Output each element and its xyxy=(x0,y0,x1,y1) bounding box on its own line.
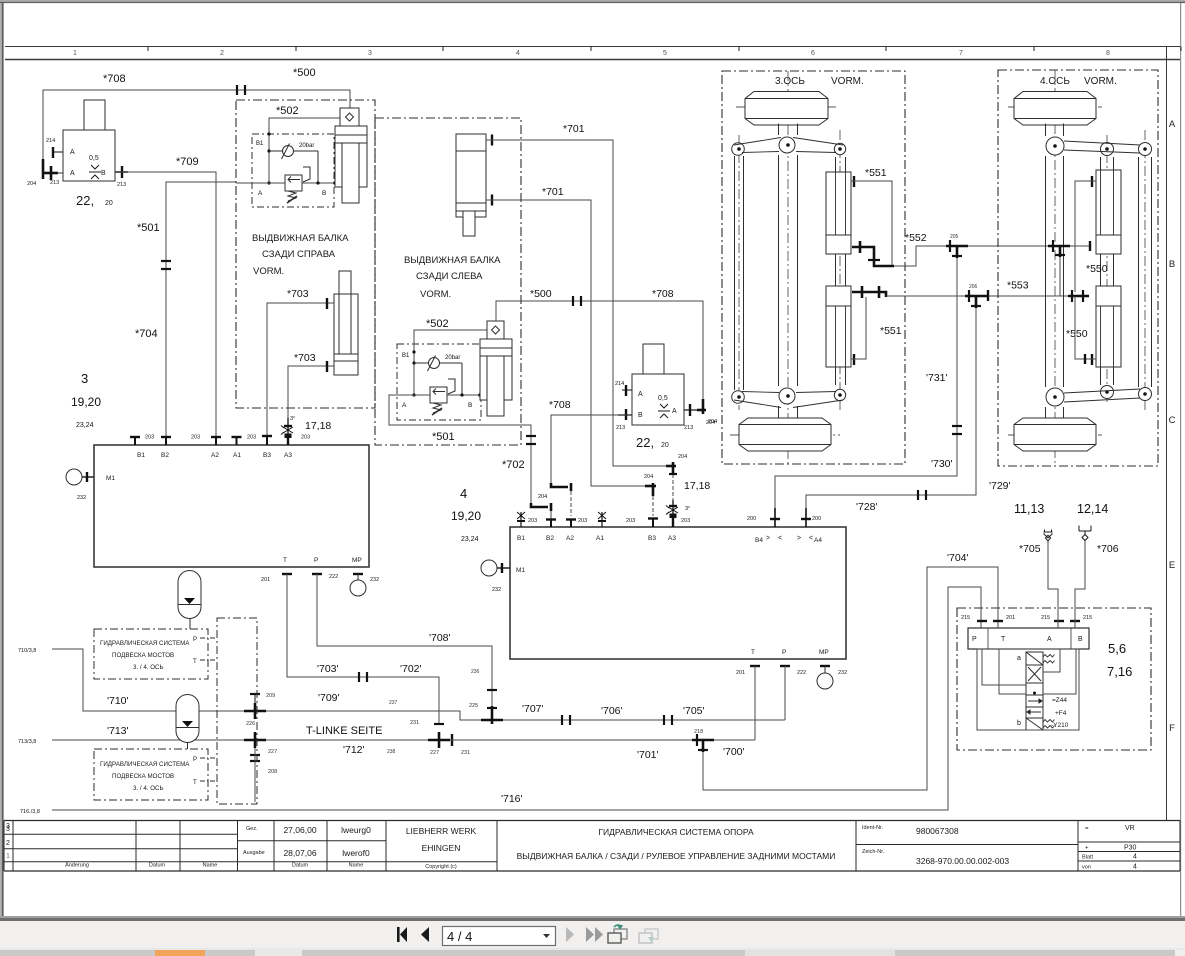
svg-text:232: 232 xyxy=(370,577,379,583)
valve U22-2 labels xyxy=(615,381,715,480)
svg-text:B1: B1 xyxy=(402,353,410,359)
svg-text:P: P xyxy=(782,649,786,656)
svg-text:'712': '712' xyxy=(343,744,365,756)
svg-text:28,07,06: 28,07,06 xyxy=(283,848,316,858)
svg-text:4: 4 xyxy=(516,50,520,57)
svg-text:201: 201 xyxy=(261,577,270,583)
svg-text:4: 4 xyxy=(460,486,467,501)
axle3 upper cyl top port xyxy=(853,176,855,187)
svg-text:716./3,8: 716./3,8 xyxy=(20,809,40,815)
svg-text:ГИДРАВЛИЧЕСКАЯ СИСТЕМА ОПОРА: ГИДРАВЛИЧЕСКАЯ СИСТЕМА ОПОРА xyxy=(598,827,754,837)
port A riser to coupling xyxy=(1048,541,1058,628)
ruler band xyxy=(5,46,1180,48)
manifold port labels xyxy=(972,636,1083,643)
svg-text:B: B xyxy=(468,402,472,409)
svg-text:A1: A1 xyxy=(233,452,241,459)
svg-text:Datum: Datum xyxy=(149,863,166,869)
svg-text:22,: 22, xyxy=(636,435,654,450)
lower cyl port link xyxy=(1075,296,1096,364)
svg-text:T: T xyxy=(283,557,287,564)
svg-text:P: P xyxy=(972,636,977,643)
axle3 junction cluster xyxy=(852,241,894,298)
svg-text:A: A xyxy=(672,408,677,415)
junction 218 xyxy=(692,734,714,752)
right inner frame xyxy=(1166,47,1168,821)
svg-text:23,24: 23,24 xyxy=(461,536,479,543)
axle4 cylinder lower *550 xyxy=(1096,286,1121,367)
bottom scrollbar strips xyxy=(0,950,1185,956)
icon: previous view xyxy=(608,925,627,943)
connector on *702 riser xyxy=(526,436,536,444)
port 214 tick U22-2 xyxy=(622,385,632,396)
wire *703 upper to B3 xyxy=(267,303,334,445)
svg-text:203: 203 xyxy=(301,435,310,441)
svg-text:MP: MP xyxy=(819,649,829,656)
text beam right xyxy=(252,233,349,277)
svg-text:A4: A4 xyxy=(814,537,822,544)
svg-text:+F4: +F4 xyxy=(1055,710,1067,717)
svg-text:*708: *708 xyxy=(549,399,571,411)
svg-text:*502: *502 xyxy=(426,318,449,330)
svg-text:*703: *703 xyxy=(294,352,316,364)
svg-text:'706': '706' xyxy=(601,705,623,717)
svg-text:*502: *502 xyxy=(276,105,299,117)
axle3 bottom linkage xyxy=(734,392,843,408)
svg-text:VORM.: VORM. xyxy=(253,266,284,277)
svg-text:*551: *551 xyxy=(865,167,887,179)
svg-text:236: 236 xyxy=(471,669,480,675)
axle3 cylinder upper *551 xyxy=(826,172,851,254)
svg-text:M1: M1 xyxy=(516,567,525,574)
svg-text:17,18: 17,18 xyxy=(305,420,331,432)
svg-text:LIEBHERR WERK: LIEBHERR WERK xyxy=(406,826,477,836)
svg-text:5: 5 xyxy=(663,50,667,57)
svg-text:'710': '710' xyxy=(107,695,129,707)
svg-text:=: = xyxy=(1085,826,1089,832)
junction *553 axle4 xyxy=(1068,290,1089,302)
wire 700/704 from 218 xyxy=(703,567,998,790)
svg-text:T: T xyxy=(193,779,197,786)
cylinder Z2 (bottom, rod up) xyxy=(334,271,358,375)
wire B1 branch xyxy=(269,118,342,183)
svg-text:T: T xyxy=(193,658,197,665)
svg-text:A3: A3 xyxy=(668,535,676,542)
junction 205 xyxy=(946,240,968,258)
svg-text:ГИДРАВЛИЧЕСКАЯ СИСТЕМА: ГИДРАВЛИЧЕСКАЯ СИСТЕМА xyxy=(100,640,190,647)
svg-text:P: P xyxy=(193,636,197,643)
svg-text:-Y210: -Y210 xyxy=(1051,722,1069,729)
svg-text:*702: *702 xyxy=(502,459,525,471)
svg-text:'731': '731' xyxy=(926,372,948,384)
svg-text:A3: A3 xyxy=(284,452,292,459)
cylinder Z1 top mount xyxy=(340,108,359,126)
svg-text:204: 204 xyxy=(708,419,717,425)
valve internal wiring frame xyxy=(977,649,1079,730)
axle4 dash-dot box xyxy=(998,70,1158,466)
manifold tick labels xyxy=(961,615,1092,621)
axle4 centerlines xyxy=(1008,70,1145,466)
svg-text:'701': '701' xyxy=(637,749,659,761)
wire *551 upper xyxy=(851,181,892,266)
port 204 elbow to *708 riser xyxy=(42,159,58,180)
labels near bottom ports block1 xyxy=(261,574,379,583)
svg-text:226: 226 xyxy=(246,721,255,727)
port labels block1 xyxy=(106,452,362,564)
box 5,6 dash-dot xyxy=(957,608,1151,750)
svg-text:227: 227 xyxy=(430,750,439,756)
title block frame xyxy=(4,821,1180,872)
axle3 bottom tire xyxy=(739,418,831,451)
svg-text:1: 1 xyxy=(73,50,77,57)
svg-text:17,18: 17,18 xyxy=(684,480,710,492)
svg-text:'729': '729' xyxy=(989,480,1011,492)
svg-text:205: 205 xyxy=(950,234,959,240)
axle4 title xyxy=(1040,76,1117,87)
svg-text:201: 201 xyxy=(1006,615,1015,621)
svg-text:3: 3 xyxy=(6,826,10,833)
svg-text:8: 8 xyxy=(1106,50,1110,57)
bottom port ticks block2 xyxy=(750,665,830,667)
riser P2 xyxy=(784,666,786,720)
svg-text:A: A xyxy=(258,190,263,197)
svg-text:*708: *708 xyxy=(103,73,126,85)
svg-text:222: 222 xyxy=(329,574,338,580)
svg-text:A: A xyxy=(1047,636,1052,643)
check valve 20bar 2 xyxy=(414,356,462,396)
svg-text:'716': '716' xyxy=(501,793,523,805)
svg-text:20: 20 xyxy=(661,442,669,449)
toolbar icons xyxy=(390,921,670,948)
svg-text:*704: *704 xyxy=(135,328,158,340)
svg-text:VR: VR xyxy=(1125,825,1135,832)
svg-text:=Z44: =Z44 xyxy=(1052,697,1067,704)
labels A B box2 xyxy=(402,402,472,409)
svg-text:>: > xyxy=(797,535,801,542)
svg-text:203: 203 xyxy=(247,435,256,441)
svg-text:5,6: 5,6 xyxy=(1108,641,1126,656)
svg-text:'704': '704' xyxy=(947,552,969,564)
svg-text:*709: *709 xyxy=(176,156,199,168)
axle3 dash-dot box xyxy=(722,71,905,464)
svg-text:<: < xyxy=(809,535,813,542)
svg-text:19,20: 19,20 xyxy=(451,509,481,523)
tick 236 xyxy=(487,689,497,691)
axle4 bottom stem xyxy=(1046,407,1064,418)
ident divider xyxy=(856,844,1078,846)
wire *701 lower xyxy=(486,200,647,486)
check valve 20bar xyxy=(269,144,318,184)
right mini table rows xyxy=(1078,841,1180,843)
crossing tick on *553 at box edge xyxy=(987,290,989,301)
junction 206 xyxy=(965,290,987,308)
svg-text:A: A xyxy=(70,170,75,177)
throttle symbol in U22-1 xyxy=(89,165,101,179)
port B tick of U22-1 xyxy=(121,166,123,178)
svg-text:ПОДВЕСКА МОСТОВ: ПОДВЕСКА МОСТОВ xyxy=(112,773,174,780)
sub box *502-2 dash-dot xyxy=(397,344,481,420)
connector on 728 xyxy=(918,490,926,500)
ruler ticks + numbers xyxy=(73,50,1110,57)
svg-text:'707': '707' xyxy=(522,703,544,715)
wire 709 jog xyxy=(263,711,481,720)
upper cyl bottom port link xyxy=(1070,241,1090,251)
svg-text:0,5: 0,5 xyxy=(658,395,668,402)
svg-text:Ausgabe: Ausgabe xyxy=(243,850,265,856)
svg-text:4 / 4: 4 / 4 xyxy=(447,929,472,944)
prev page button xyxy=(421,927,429,942)
svg-text:*708: *708 xyxy=(652,288,674,300)
page combo box xyxy=(443,927,556,946)
svg-text:209: 209 xyxy=(266,693,275,699)
elbow 204 to B3 block2 xyxy=(645,483,656,496)
svg-text:*500: *500 xyxy=(530,288,552,300)
axle4 top hubs xyxy=(1046,137,1152,156)
svg-text:'708': '708' xyxy=(429,632,451,644)
svg-text:<: < xyxy=(778,535,782,542)
valve U22-1 body xyxy=(63,100,115,181)
svg-text:'713': '713' xyxy=(107,725,129,737)
orifice marks B4 A4 xyxy=(766,535,813,542)
svg-text:710/3,8: 710/3,8 xyxy=(18,648,36,654)
last page button (disabled) xyxy=(586,927,603,942)
svg-text:'703': '703' xyxy=(317,663,339,675)
riser T2 xyxy=(754,666,756,740)
svg-text:3°: 3° xyxy=(685,506,690,512)
axle3 struts xyxy=(735,155,846,390)
svg-text:A: A xyxy=(638,391,643,398)
svg-text:'700': '700' xyxy=(723,746,745,758)
hydraulik box lower xyxy=(94,749,208,800)
beam box left dash-dot xyxy=(375,118,521,445)
right page edge xyxy=(1180,3,1181,918)
connectors on 707 wire xyxy=(562,715,672,725)
svg-text:3: 3 xyxy=(368,50,372,57)
accumulator SP2 xyxy=(176,695,199,750)
svg-text:232: 232 xyxy=(838,670,847,676)
title block texts xyxy=(6,825,1137,871)
svg-text:VORM.: VORM. xyxy=(1084,76,1117,87)
svg-text:Zeich-Nr.: Zeich-Nr. xyxy=(862,849,885,855)
svg-text:A1: A1 xyxy=(596,535,604,542)
axle4 bottom linkage xyxy=(1064,389,1140,402)
svg-text:222: 222 xyxy=(797,670,806,676)
axle3 top hubs xyxy=(732,137,846,155)
wire B1 branch 2 xyxy=(414,330,487,395)
wire *708 top xyxy=(43,90,350,159)
junction *552 axle4 xyxy=(1048,240,1070,257)
A-B line box1 xyxy=(236,182,335,184)
wire *500/*708 top xyxy=(496,301,703,402)
svg-text:*701: *701 xyxy=(542,186,564,198)
svg-text:*552: *552 xyxy=(905,232,927,244)
valve block V1 body xyxy=(94,445,369,567)
left stub 713/3,8 xyxy=(52,739,244,741)
wire P1 down and right ('708') xyxy=(317,574,492,712)
svg-text:200: 200 xyxy=(747,516,756,522)
svg-text:231: 231 xyxy=(461,750,470,756)
svg-text:A: A xyxy=(70,149,75,156)
svg-text:23,24: 23,24 xyxy=(76,422,94,429)
svg-text:237: 237 xyxy=(389,700,398,706)
svg-text:3. / 4. ОСЬ: 3. / 4. ОСЬ xyxy=(133,664,164,671)
svg-text:203: 203 xyxy=(145,435,154,441)
junction 227R xyxy=(428,724,452,748)
svg-text:213: 213 xyxy=(616,425,625,431)
svg-text:*553: *553 xyxy=(1007,280,1029,292)
wire 712 end xyxy=(714,739,755,741)
svg-text:22,: 22, xyxy=(76,193,94,208)
manifold top ticks xyxy=(977,620,1080,622)
axle4 top stem xyxy=(1046,124,1064,137)
wire 729/728 to A4 xyxy=(806,308,976,508)
svg-text:Name: Name xyxy=(203,863,218,869)
svg-text:B: B xyxy=(1078,636,1083,643)
svg-text:B2: B2 xyxy=(161,452,169,459)
A-B line box2 + *501 loop xyxy=(389,395,531,507)
svg-text:203: 203 xyxy=(191,435,200,441)
tall dash-dot box xyxy=(217,618,257,804)
svg-text:B: B xyxy=(638,412,643,419)
svg-text:Gez.: Gez. xyxy=(246,826,258,832)
svg-text:T-LINKE SEITE: T-LINKE SEITE xyxy=(306,725,382,737)
P/T stubs upper box xyxy=(200,638,217,781)
svg-text:20: 20 xyxy=(105,200,113,207)
svg-text:20bar: 20bar xyxy=(445,355,460,361)
left margin marker xyxy=(6,823,10,830)
svg-text:213: 213 xyxy=(117,182,126,188)
connector on *500 wire xyxy=(573,296,581,306)
gauge MP-1 xyxy=(350,574,366,596)
accumulator SP1 xyxy=(178,571,201,630)
svg-text:Änderung: Änderung xyxy=(65,862,89,869)
svg-text:3.ОСЬ: 3.ОСЬ xyxy=(775,76,805,87)
svg-text:B4: B4 xyxy=(755,537,763,544)
svg-text:2: 2 xyxy=(220,50,224,57)
wire 716 xyxy=(52,587,981,810)
wire *703 lower to A3 xyxy=(288,366,334,420)
svg-text:203: 203 xyxy=(626,518,635,524)
svg-text:1: 1 xyxy=(6,853,10,860)
svg-text:*550: *550 xyxy=(1066,328,1088,340)
cylinder Z1 barrel xyxy=(335,126,367,203)
valve block V2 body xyxy=(510,527,846,659)
svg-text:Blatt: Blatt xyxy=(1082,855,1093,861)
svg-text:214: 214 xyxy=(46,138,55,144)
svg-text:201: 201 xyxy=(736,670,745,676)
svg-text:B3: B3 xyxy=(648,535,656,542)
svg-text:T: T xyxy=(1001,636,1006,643)
svg-text:F: F xyxy=(1169,723,1175,734)
axle3 top tire xyxy=(745,92,828,126)
axle3 bottom stem xyxy=(779,406,798,418)
drop wire to *553 xyxy=(1059,257,1061,296)
svg-text:3°: 3° xyxy=(290,416,295,422)
svg-text:A2: A2 xyxy=(566,535,574,542)
svg-text:a: a xyxy=(1017,655,1021,662)
svg-text:*550: *550 xyxy=(1086,263,1108,275)
left stub 710/3,8 xyxy=(52,649,247,711)
svg-text:3268-970.00.00.002-003: 3268-970.00.00.002-003 xyxy=(916,856,1009,866)
svg-text:215: 215 xyxy=(961,615,970,621)
port ticks Z3 xyxy=(491,135,493,206)
hydraulik box upper xyxy=(94,629,208,679)
svg-text:213: 213 xyxy=(50,180,59,186)
svg-text:11,13: 11,13 xyxy=(1014,502,1044,516)
svg-text:EHINGEN: EHINGEN xyxy=(422,843,461,853)
labels near bottom ports block2 xyxy=(736,670,847,676)
svg-text:6: 6 xyxy=(811,50,815,57)
svg-text:2: 2 xyxy=(6,840,10,847)
svg-text:980067308: 980067308 xyxy=(916,826,959,836)
svg-text:4: 4 xyxy=(1133,854,1137,861)
cylinder Z4 (small, in box2) xyxy=(480,321,512,416)
svg-text:M1: M1 xyxy=(106,475,115,482)
svg-text:203: 203 xyxy=(528,518,537,524)
throttle symbol in U22-2 xyxy=(658,404,670,418)
svg-text:*551: *551 xyxy=(880,325,902,337)
svg-text:VORM.: VORM. xyxy=(831,76,864,87)
203/200 labels block2 xyxy=(528,516,821,524)
wire *501/*704 riser to B2 xyxy=(166,182,236,445)
svg-text:B1: B1 xyxy=(256,141,264,147)
svg-text:СЗАДИ СПРАВА: СЗАДИ СПРАВА xyxy=(262,249,336,260)
elbow 204 *702 to B2 xyxy=(531,503,551,511)
wire *708 mid (B port to A2 riser) xyxy=(551,415,618,483)
svg-text:204: 204 xyxy=(678,454,687,460)
svg-text:ГИДРАВЛИЧЕСКАЯ СИСТЕМА: ГИДРАВЛИЧЕСКАЯ СИСТЕМА xyxy=(100,761,190,768)
junction 227L xyxy=(244,732,266,761)
junction 226 xyxy=(244,694,266,719)
port tick *703 upper xyxy=(326,298,328,309)
svg-text:231: 231 xyxy=(410,720,419,726)
svg-text:203: 203 xyxy=(681,518,690,524)
relief valve V502-2 xyxy=(430,379,455,415)
svg-text:20bar: 20bar xyxy=(299,143,314,149)
check valve 3deg at A3-2 xyxy=(666,500,678,527)
axle4 bottom tire xyxy=(1014,418,1096,451)
svg-text:*703: *703 xyxy=(287,288,309,300)
port labels block2 xyxy=(516,535,829,656)
top port ticks block1 xyxy=(130,436,272,445)
svg-text:lwerof0: lwerof0 xyxy=(342,848,370,858)
svg-text:12,14: 12,14 xyxy=(1077,502,1108,516)
svg-text:4: 4 xyxy=(1133,864,1137,871)
next page button (disabled) xyxy=(566,927,574,942)
203 labels block1 xyxy=(145,435,310,441)
svg-text:A: A xyxy=(402,402,407,409)
svg-text:214: 214 xyxy=(615,381,624,387)
svg-text:'709': '709' xyxy=(318,692,340,704)
text beam left xyxy=(404,255,501,300)
svg-text:'702': '702' xyxy=(400,663,422,675)
svg-text:213: 213 xyxy=(684,425,693,431)
svg-text:von: von xyxy=(1082,865,1091,871)
beam box right dash-dot xyxy=(236,100,375,408)
svg-text:b: b xyxy=(1017,720,1021,727)
svg-text:3. / 4. ОСЬ: 3. / 4. ОСЬ xyxy=(133,785,164,792)
window top border xyxy=(0,0,1185,2)
port B riser to coupling xyxy=(1075,541,1085,629)
svg-text:B2: B2 xyxy=(546,535,554,542)
svg-text:238: 238 xyxy=(387,749,396,755)
coupling *705 xyxy=(1044,530,1053,541)
svg-text:7,16: 7,16 xyxy=(1107,664,1132,679)
svg-text:ВЫДВИЖНАЯ БАЛКА: ВЫДВИЖНАЯ БАЛКА xyxy=(404,255,501,266)
port A right U22-2 tick + 204 elbow xyxy=(684,409,697,411)
wire T1 down and right ('703'/'702') xyxy=(287,574,439,724)
row letters right margin xyxy=(1169,119,1176,734)
connector on *501 riser xyxy=(161,261,171,269)
